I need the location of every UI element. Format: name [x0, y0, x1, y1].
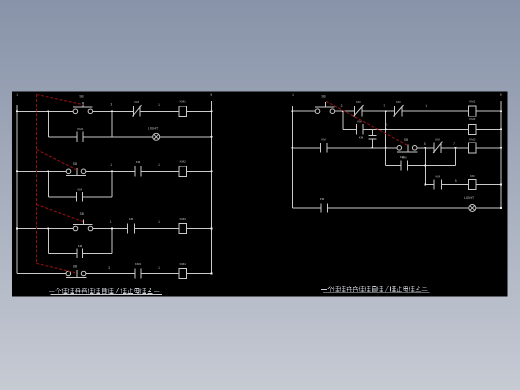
- pushbutton SB3 (NO): [73, 212, 93, 231]
- wire branch2 vertical right: [111, 171, 113, 197]
- wire rbranch1 H2: [408, 165, 456, 167]
- contact KM2 NC rung1: [132, 100, 141, 117]
- svg-text:LIGHT: LIGHT: [148, 126, 159, 130]
- pushbutton SB2b (NC): [397, 138, 417, 159]
- node label 3 rung1: [110, 103, 112, 107]
- contact KM4 NO rung4: [135, 262, 142, 279]
- svg-text:KM: KM: [129, 217, 134, 221]
- contact KM2 NO rbranch1: [401, 156, 408, 171]
- node label 1 row2: [386, 123, 388, 127]
- right rail (left circuit): [211, 101, 213, 273]
- svg-text:KM4: KM4: [180, 262, 187, 266]
- wire rung2 L4: [186, 170, 211, 172]
- wire rungA L4: [402, 110, 469, 112]
- pushbutton SB4 (NC): [66, 264, 86, 277]
- wire rbranch2 H2: [442, 184, 469, 186]
- svg-text:KM2: KM2: [180, 160, 187, 164]
- coil KM2 right circuit: [469, 137, 477, 152]
- wire rung4 L2: [86, 273, 135, 275]
- node label 1 rung1: [158, 103, 160, 107]
- left rail (left circuit): [16, 105, 18, 274]
- linkage diagonal SB1b-SB2b (red): [326, 101, 408, 145]
- svg-text:KM: KM: [470, 174, 475, 178]
- node label 7 rungB: [453, 142, 455, 146]
- svg-text:KM: KM: [135, 100, 140, 104]
- node label 5 rbranch2: [455, 179, 457, 183]
- wire rung4 L3: [141, 273, 179, 275]
- svg-text:KM: KM: [402, 156, 407, 160]
- node label 3 rungA: [341, 104, 343, 108]
- coil KM3: [179, 217, 187, 234]
- caption text left circuit (一个按钮开关控制自动/停止电路之一): [49, 288, 162, 295]
- wire rungB L4: [441, 147, 469, 149]
- svg-text:9: 9: [500, 93, 502, 97]
- wire rung2 L2: [86, 170, 136, 172]
- svg-text:KM3: KM3: [180, 217, 187, 221]
- node label 9 top-right right circuit: [500, 93, 502, 97]
- wire branch1 H2: [83, 136, 153, 138]
- svg-text:1: 1: [158, 266, 160, 270]
- coil KM4 right circuit: [469, 117, 477, 134]
- coil KM4: [179, 262, 187, 279]
- svg-text:KM: KM: [320, 197, 325, 201]
- wire rung3 L1: [17, 228, 73, 230]
- right rail (right circuit): [500, 101, 502, 208]
- svg-text:SB: SB: [404, 138, 408, 142]
- svg-text:1: 1: [158, 220, 160, 224]
- wire rungA L5: [476, 110, 501, 112]
- node label 9 top-right: [210, 93, 212, 97]
- svg-text:KM1: KM1: [180, 100, 187, 104]
- linkage diagonal to SB1 (red): [37, 95, 84, 105]
- wire rung1 L2: [93, 110, 134, 112]
- left rail (right circuit): [291, 106, 293, 208]
- wire rbranch1 vertical left: [385, 148, 387, 166]
- svg-text:5: 5: [424, 142, 426, 146]
- lamp LIGHT right circuit: [464, 196, 476, 212]
- node label 1 top-left: [16, 93, 18, 97]
- node label 1 rungA b: [425, 104, 427, 108]
- black drawing canvas: [12, 92, 508, 297]
- wire rungB L2: [327, 147, 397, 149]
- node label 1 rung4: [158, 266, 160, 270]
- svg-text:KM: KM: [435, 138, 440, 142]
- svg-text:7: 7: [453, 142, 455, 146]
- wire rung2 L3: [141, 170, 179, 172]
- node label 5 rungB: [424, 142, 426, 146]
- coil KM3 right circuit: [469, 174, 477, 189]
- node label 1 rung3b: [158, 220, 160, 224]
- svg-text:1: 1: [110, 220, 112, 224]
- coil KM2: [179, 160, 187, 177]
- svg-text:3: 3: [108, 266, 110, 270]
- linkage diagonal to SB2 (red): [37, 150, 77, 171]
- wire rungA L2: [335, 110, 355, 112]
- wire branch2 vertical left: [47, 171, 49, 197]
- contact KM3 NO rung3: [128, 217, 135, 234]
- svg-text:KM3: KM3: [135, 262, 142, 266]
- wire rung2 L1: [17, 170, 66, 172]
- contact KM1 NO row2: [356, 120, 363, 135]
- contact KM2 vertical NO: [359, 129, 377, 147]
- caption text right circuit (一个按钮开关控制自动/停止电路之二): [321, 286, 429, 293]
- svg-text:1: 1: [110, 163, 112, 167]
- pushbutton SB1b (NO): [315, 95, 335, 114]
- svg-text:KM: KM: [136, 160, 141, 164]
- node label 3 rung4: [108, 266, 110, 270]
- pushbutton SB2 (NC): [66, 162, 86, 176]
- wire rungA L1: [292, 110, 315, 112]
- wire branch1 H1: [48, 136, 77, 138]
- coil KM1: [179, 100, 187, 117]
- linkage diagonal to SB3 (red): [36, 204, 83, 221]
- pushbutton SB1 (NO): [73, 95, 93, 114]
- wire node3 vertical: [342, 111, 344, 129]
- svg-text:1: 1: [158, 163, 160, 167]
- svg-text:KM: KM: [436, 174, 441, 178]
- contact KM4 NC rungA: [393, 100, 403, 116]
- contact KM1 NO branch1: [77, 127, 84, 142]
- junction nodes (right circuit): [292, 110, 502, 208]
- junction nodes (left circuit): [16, 111, 212, 275]
- wire branch2 H2: [82, 196, 112, 198]
- svg-text:SB: SB: [73, 162, 77, 166]
- contact KM1 NC rungB: [433, 138, 442, 153]
- svg-text:KM: KM: [359, 135, 364, 139]
- svg-text:KM1: KM1: [469, 99, 476, 103]
- wire branch1 vertical right: [111, 111, 113, 137]
- wire rbranch1 H1: [386, 165, 401, 167]
- wire rungC L1: [292, 207, 320, 209]
- svg-text:SB: SB: [79, 95, 83, 99]
- wire rungC L2: [327, 207, 469, 209]
- svg-text:KM1: KM1: [77, 127, 84, 131]
- contact KM1 NO rungB: [321, 138, 327, 153]
- wire branch3 vertical left: [47, 229, 49, 254]
- wire rbranch2 vertical: [424, 148, 426, 185]
- linkage dashed vertical (red): [36, 95, 38, 264]
- wire rung3 L4: [186, 228, 211, 230]
- wire rung3 L3: [135, 228, 180, 230]
- svg-text:9: 9: [210, 93, 212, 97]
- svg-text:1: 1: [292, 93, 294, 97]
- wire row2 H2: [363, 128, 469, 130]
- wire branch2 H1: [48, 196, 76, 198]
- wire branch1 H3: [160, 136, 212, 138]
- svg-text:LIGHT: LIGHT: [464, 196, 475, 200]
- wire row2 H3: [476, 128, 501, 130]
- svg-text:1: 1: [383, 104, 385, 108]
- wire rbranch2 H1: [425, 184, 434, 186]
- node label 1 rung2b: [158, 163, 160, 167]
- svg-text:KM: KM: [356, 100, 361, 104]
- svg-text:KM: KM: [396, 100, 401, 104]
- contact KM2 NC rungA: [353, 100, 363, 116]
- svg-text:KM2: KM2: [469, 137, 476, 141]
- svg-text:3: 3: [110, 103, 112, 107]
- wire rungB L5: [476, 147, 501, 149]
- wire rung1 L4: [186, 110, 211, 112]
- svg-text:KM: KM: [78, 187, 83, 191]
- contact KM2 NO branch2: [77, 187, 83, 201]
- contact KM4 NO rungC: [320, 197, 328, 213]
- wire branch1 vertical left: [47, 111, 49, 137]
- wire branch3 H2: [83, 252, 112, 254]
- wire rungA L3: [362, 110, 395, 112]
- wire rung1 L3: [140, 110, 179, 112]
- wire rungB L1: [292, 147, 320, 149]
- node label 1 rungA: [383, 104, 385, 108]
- contact KM3 NO branch3: [77, 244, 83, 258]
- contact KM3 NO rbranch2: [434, 174, 442, 189]
- wire rbranch1 vertical right: [455, 148, 457, 166]
- wire node1 vertical: [385, 111, 387, 148]
- wire rung3 L2: [93, 228, 128, 230]
- svg-text:5: 5: [455, 179, 457, 183]
- svg-text:SB: SB: [73, 264, 77, 268]
- wire rungB L3: [417, 147, 434, 149]
- contact KM1 NO rung2: [135, 160, 141, 177]
- wire rbranch2 H3: [476, 184, 501, 186]
- svg-text:1: 1: [425, 104, 427, 108]
- svg-text:KM4: KM4: [469, 117, 476, 121]
- svg-text:KM: KM: [78, 244, 83, 248]
- wire rungC L3: [476, 207, 501, 209]
- wire rung1 L1: [17, 110, 73, 112]
- svg-text:1: 1: [16, 93, 18, 97]
- svg-text:3: 3: [341, 104, 343, 108]
- node label 1 rung3a: [110, 220, 112, 224]
- svg-text:1: 1: [158, 103, 160, 107]
- linkage diagonal to SB4 (red): [36, 263, 75, 272]
- wire rung4 L1: [17, 273, 66, 275]
- wire branch3 vertical right: [111, 229, 113, 254]
- coil KM1 right circuit: [469, 99, 477, 116]
- svg-text:KM: KM: [321, 138, 326, 142]
- lamp LIGHT: [148, 126, 160, 140]
- node label 1 rung2a: [110, 163, 112, 167]
- node label 1 top-left right circuit: [292, 93, 294, 97]
- wire row2 H1: [343, 128, 357, 130]
- wire rung4 L4: [186, 273, 211, 275]
- wire branch3 H1: [48, 252, 77, 254]
- svg-text:SB: SB: [80, 212, 84, 216]
- svg-text:SB: SB: [321, 95, 325, 99]
